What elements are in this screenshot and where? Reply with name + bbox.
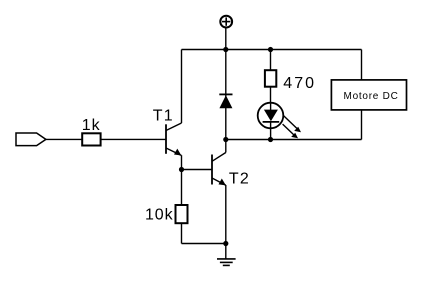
- transistor T1: [166, 123, 182, 156]
- svg-text:T2: T2: [229, 170, 250, 187]
- junction dot mid at diode: [223, 137, 228, 142]
- input connector: [16, 133, 46, 146]
- svg-text:1k: 1k: [82, 117, 101, 134]
- junction dot top at supply: [223, 47, 228, 52]
- LED arrow 1: [284, 116, 302, 133]
- wire node to T2 base: [182, 169, 213, 171]
- supply + symbol: [220, 16, 232, 28]
- wire mid rail: [226, 139, 362, 141]
- resistor 1k: [82, 133, 100, 145]
- wire rail to 470: [270, 50, 272, 71]
- svg-text:470: 470: [283, 75, 316, 92]
- wire motor to mid rail: [361, 110, 363, 140]
- junction dot T1 emitter node: [179, 167, 184, 172]
- wire T1 emitter down to node: [181, 155, 183, 169]
- svg-text:T1: T1: [153, 108, 174, 125]
- transistor T2: [212, 140, 226, 186]
- wire 1k to T1 base: [101, 138, 166, 140]
- wire supply down through diode to mid rail: [225, 27, 227, 139]
- svg-text:10k: 10k: [145, 207, 174, 224]
- LED arrow 2: [283, 124, 298, 138]
- wire node down to 10k: [181, 170, 183, 206]
- ground: [217, 244, 236, 266]
- diode D1: [219, 94, 232, 108]
- wire rail right down to motor: [361, 50, 363, 80]
- wire 10k down: [181, 223, 183, 243]
- motor box: [331, 80, 406, 110]
- wire T1 collector up: [181, 50, 183, 124]
- LED D2: [258, 103, 284, 140]
- junction dot ground node: [223, 241, 228, 246]
- wire input to 1k: [46, 138, 82, 140]
- resistor 10k: [176, 205, 188, 223]
- svg-text:Motore DC: Motore DC: [344, 91, 399, 102]
- wire 470 to LED: [270, 87, 272, 103]
- wire top rail: [182, 49, 362, 51]
- resistor 470: [265, 70, 276, 87]
- junction dot top at 470: [268, 47, 273, 52]
- junction dot mid at LED: [268, 137, 273, 142]
- wire bottom to ground node: [182, 243, 226, 245]
- wire T2 emitter down: [225, 185, 227, 244]
